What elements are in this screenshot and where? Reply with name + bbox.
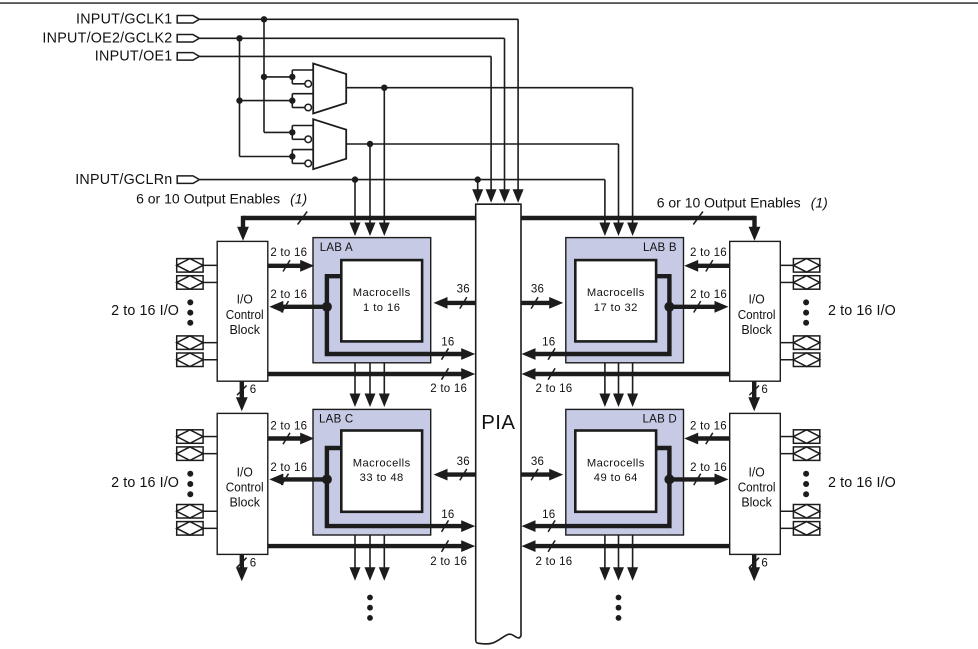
svg-text:LAB B: LAB B <box>643 242 677 254</box>
svg-text:2 to 16: 2 to 16 <box>270 420 307 432</box>
svg-text:LAB C: LAB C <box>319 414 354 426</box>
svg-text:2 to 16: 2 to 16 <box>690 420 727 432</box>
svg-text:36: 36 <box>457 456 470 468</box>
svg-text:INPUT/OE1: INPUT/OE1 <box>95 49 173 65</box>
svg-text:Macrocells: Macrocells <box>353 287 411 299</box>
svg-text:Control: Control <box>738 480 776 495</box>
svg-text:INPUT/GCLRn: INPUT/GCLRn <box>75 172 172 188</box>
svg-text:2 to 16 I/O: 2 to 16 I/O <box>111 303 179 319</box>
svg-text:17 to 32: 17 to 32 <box>594 302 638 314</box>
svg-text:Control: Control <box>738 307 776 322</box>
svg-text:I/O: I/O <box>237 292 253 307</box>
svg-text:Block: Block <box>229 322 260 337</box>
svg-text:Macrocells: Macrocells <box>587 458 645 470</box>
svg-text:2 to 16: 2 to 16 <box>430 556 467 568</box>
svg-text:2 to 16: 2 to 16 <box>690 289 727 301</box>
svg-text:2 to 16 I/O: 2 to 16 I/O <box>828 475 896 491</box>
svg-text:Control: Control <box>226 307 264 322</box>
svg-text:I/O: I/O <box>237 464 253 479</box>
svg-text:Macrocells: Macrocells <box>353 458 411 470</box>
svg-text:Block: Block <box>741 495 772 510</box>
svg-text:16: 16 <box>542 336 555 348</box>
svg-text:INPUT/OE2/GCLK2: INPUT/OE2/GCLK2 <box>42 31 172 47</box>
svg-text:2 to 16: 2 to 16 <box>690 462 727 474</box>
svg-text:2 to 16 I/O: 2 to 16 I/O <box>111 475 179 491</box>
svg-text:PIA: PIA <box>481 412 515 434</box>
svg-text:2 to 16: 2 to 16 <box>690 247 727 259</box>
svg-text:2 to 16: 2 to 16 <box>270 289 307 301</box>
svg-text:Block: Block <box>229 495 260 510</box>
svg-text:2 to 16: 2 to 16 <box>536 556 573 568</box>
svg-text:16: 16 <box>441 336 454 348</box>
svg-text:6: 6 <box>250 558 257 570</box>
svg-text:6: 6 <box>761 558 768 570</box>
svg-text:I/O: I/O <box>749 464 765 479</box>
svg-text:2 to 16: 2 to 16 <box>270 247 307 259</box>
svg-text:36: 36 <box>457 283 470 295</box>
svg-text:6: 6 <box>761 384 768 396</box>
svg-text:36: 36 <box>531 456 544 468</box>
svg-text:33 to 48: 33 to 48 <box>360 472 404 484</box>
svg-text:49 to 64: 49 to 64 <box>594 472 638 484</box>
svg-text:LAB D: LAB D <box>643 414 678 426</box>
svg-text:INPUT/GCLK1: INPUT/GCLK1 <box>76 12 173 28</box>
svg-text:Control: Control <box>226 480 264 495</box>
svg-text:LAB A: LAB A <box>320 242 353 254</box>
svg-text:Block: Block <box>741 322 772 337</box>
svg-text:2 to 16: 2 to 16 <box>536 383 573 395</box>
svg-text:2 to 16: 2 to 16 <box>430 383 467 395</box>
svg-text:Macrocells: Macrocells <box>587 287 645 299</box>
svg-text:2 to 16: 2 to 16 <box>270 462 307 474</box>
svg-text:16: 16 <box>542 509 555 521</box>
svg-text:I/O: I/O <box>749 292 765 307</box>
svg-text:36: 36 <box>531 283 544 295</box>
svg-text:1 to 16: 1 to 16 <box>363 302 400 314</box>
svg-text:6: 6 <box>250 384 257 396</box>
svg-text:16: 16 <box>441 509 454 521</box>
svg-text:2 to 16 I/O: 2 to 16 I/O <box>828 303 896 319</box>
